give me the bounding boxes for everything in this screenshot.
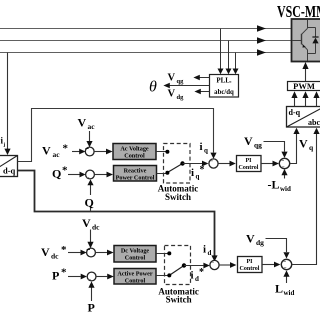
svg-text:Control: Control: [125, 255, 146, 262]
svg-text:abc/dq: abc/dq: [214, 89, 234, 96]
svg-text:V: V: [246, 232, 255, 246]
svg-text:*: *: [62, 165, 68, 177]
svg-text:d: d: [208, 249, 212, 257]
svg-text:ac: ac: [53, 150, 61, 159]
svg-text:V: V: [78, 116, 87, 130]
svg-text:i: i: [191, 167, 194, 179]
svg-text:i: i: [191, 270, 194, 282]
svg-text:*: *: [63, 143, 69, 155]
svg-text:Control: Control: [125, 278, 146, 285]
svg-text:abc: abc: [308, 118, 320, 127]
svg-text:i: i: [203, 244, 206, 256]
svg-text:P: P: [88, 301, 95, 315]
svg-text:P: P: [52, 269, 59, 283]
svg-text:dg: dg: [256, 238, 264, 247]
svg-text:Switch: Switch: [165, 192, 191, 202]
svg-text:qg: qg: [177, 78, 185, 85]
svg-text:VSC-MMC: VSC-MMC: [277, 2, 320, 21]
svg-text:-L: -L: [268, 178, 280, 192]
svg-text:wid: wid: [284, 289, 295, 297]
svg-text:Control: Control: [239, 165, 259, 171]
svg-text:V: V: [41, 245, 50, 259]
svg-text:Q: Q: [52, 167, 61, 181]
svg-text:i: i: [200, 141, 203, 153]
svg-text:*: *: [200, 165, 205, 176]
svg-text:dc: dc: [51, 252, 59, 261]
svg-text:L: L: [275, 282, 283, 296]
svg-text:*: *: [61, 244, 67, 256]
svg-text:V: V: [168, 73, 176, 84]
svg-text:d-q: d-q: [289, 108, 301, 117]
svg-text:qg: qg: [254, 141, 262, 150]
svg-text:Active Power: Active Power: [117, 271, 152, 278]
svg-text:q: q: [204, 147, 208, 155]
svg-text:V: V: [42, 144, 51, 158]
svg-text:Q: Q: [85, 196, 94, 210]
svg-text:*: *: [199, 267, 204, 278]
svg-text:PLL.: PLL.: [216, 77, 232, 85]
svg-text:ac: ac: [88, 122, 96, 131]
svg-text:Control: Control: [124, 153, 145, 160]
svg-text:j: j: [3, 142, 6, 148]
svg-text:PI: PI: [247, 259, 254, 265]
svg-text:dg: dg: [177, 94, 185, 101]
svg-text:Power Control: Power Control: [116, 175, 155, 182]
svg-text:wid: wid: [280, 185, 291, 193]
svg-text:θ: θ: [149, 79, 157, 96]
svg-text:Ac Voltage: Ac Voltage: [120, 146, 149, 153]
svg-text:Control: Control: [240, 266, 260, 272]
svg-text:Reactive: Reactive: [124, 168, 147, 175]
svg-text:V: V: [244, 134, 253, 148]
svg-text:Switch: Switch: [166, 295, 192, 305]
svg-text:V: V: [299, 137, 308, 151]
svg-text:PI: PI: [246, 158, 253, 164]
svg-text:V: V: [168, 89, 176, 100]
svg-text:d-q: d-q: [3, 166, 16, 176]
svg-text:dc: dc: [92, 223, 100, 232]
svg-text:V: V: [82, 216, 91, 230]
svg-text:PWM: PWM: [293, 81, 315, 91]
svg-text:*: *: [61, 267, 67, 279]
svg-text:Dc Voltage: Dc Voltage: [121, 248, 150, 255]
